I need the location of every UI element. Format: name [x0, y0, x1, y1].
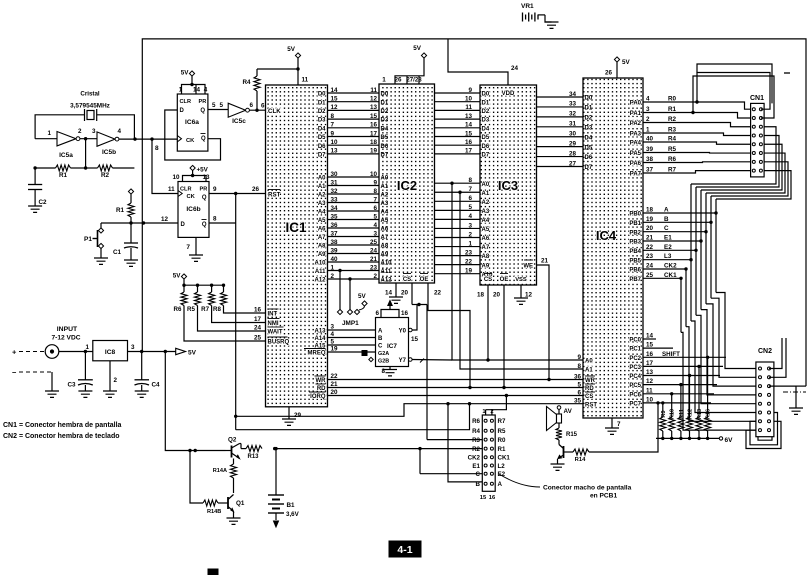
svg-text:D6: D6 [318, 144, 326, 150]
wire PB4 net E2 [629, 136, 779, 404]
svg-text:CS: CS [484, 277, 492, 283]
svg-text:4: 4 [468, 213, 472, 220]
svg-text:OE: OE [420, 277, 429, 283]
resistor R15 [556, 423, 578, 445]
pin A1 IC4 [577, 363, 593, 374]
svg-text:INT: INT [268, 312, 278, 318]
resistor R7 [201, 284, 214, 314]
svg-text:B: B [378, 336, 383, 342]
svg-text:A9: A9 [318, 252, 326, 258]
svg-text:R5: R5 [187, 306, 195, 313]
svg-text:24: 24 [254, 325, 262, 332]
svg-text:32: 32 [569, 111, 577, 118]
svg-text:D1: D1 [318, 100, 326, 106]
svg-text:A11: A11 [315, 269, 326, 275]
svg-text:R0: R0 [498, 437, 506, 444]
wire A12 [314, 273, 392, 284]
svg-text:19: 19 [370, 148, 378, 155]
wire A14 [314, 331, 375, 342]
svg-text:D0: D0 [482, 92, 490, 98]
svg-text:11: 11 [302, 77, 309, 84]
wire CN1 right pin row0 over top [697, 73, 770, 110]
inverter IC5a [35, 128, 82, 159]
svg-text:A8: A8 [318, 244, 326, 250]
wire to PCB1 row B [448, 404, 482, 482]
svg-text:5V: 5V [173, 273, 182, 280]
wire R8 to IC1 [224, 306, 266, 314]
wire PC6 [629, 387, 714, 398]
svg-text:Q2: Q2 [228, 437, 237, 444]
svg-text:Q1: Q1 [236, 500, 245, 507]
wire D3 RAM-IC4 [537, 121, 593, 132]
svg-text:PR: PR [200, 187, 208, 193]
wire A1 ROM-RAM [435, 186, 490, 197]
svg-text:R8: R8 [213, 306, 221, 313]
flip-flop IC6a [177, 87, 208, 152]
svg-text:5: 5 [212, 102, 216, 109]
wire A0 ROM-RAM [435, 177, 490, 188]
ground Q1 emitter [233, 512, 235, 519]
svg-text:A1: A1 [318, 184, 326, 190]
wire A4 ROM-RAM [435, 213, 490, 224]
svg-text:G2B: G2B [378, 359, 389, 365]
wire A2 [318, 188, 389, 199]
resistor R16 [705, 356, 712, 441]
wire 6V bus [656, 437, 733, 444]
svg-text:A2: A2 [482, 200, 490, 206]
svg-text:3,579545MHz: 3,579545MHz [70, 103, 110, 110]
svg-text:A10: A10 [314, 261, 326, 267]
svg-text:R1: R1 [116, 207, 125, 214]
resistor R14B base Q1 [188, 449, 222, 515]
svg-text:PC2: PC2 [629, 356, 641, 362]
svg-text:A1: A1 [585, 368, 593, 374]
svg-text:D7: D7 [482, 153, 490, 159]
wire CN1 right pin row1 over top [693, 76, 774, 118]
svg-text:R12: R12 [688, 409, 694, 419]
inverter IC5c [228, 102, 253, 125]
svg-text:PA4: PA4 [630, 141, 642, 147]
svg-text:D5: D5 [318, 135, 326, 141]
wire oscillator to IC6b CK pin 11 [152, 139, 178, 193]
svg-text:13: 13 [331, 148, 339, 155]
wire D0 RAM-IC4 [537, 91, 593, 102]
svg-text:1: 1 [47, 130, 51, 137]
wire IC6a D input [165, 110, 221, 160]
svg-text:16: 16 [254, 307, 262, 314]
wire PC0 [629, 333, 656, 344]
power 5V at IC6b [190, 165, 195, 170]
wire D2 [318, 104, 389, 115]
svg-text:IC5c: IC5c [232, 118, 246, 125]
svg-text:1: 1 [382, 77, 386, 84]
svg-text:IC5a: IC5a [59, 152, 73, 159]
svg-text:2: 2 [373, 273, 377, 280]
wire rail to ground near CN2 [796, 385, 806, 387]
svg-text:5V: 5V [622, 59, 631, 66]
pin OE IC2 (22) [420, 274, 472, 390]
wire D3 ROM-RAM [435, 113, 490, 124]
svg-text:RD: RD [585, 386, 594, 392]
svg-text:33: 33 [331, 196, 339, 203]
power 5V pull-up bank [173, 273, 224, 286]
svg-text:35: 35 [331, 213, 339, 220]
svg-text:18: 18 [477, 292, 485, 299]
wire D1 [318, 96, 389, 107]
svg-text:6: 6 [375, 310, 379, 317]
svg-text:5V: 5V [181, 70, 190, 77]
ground for P1 [94, 258, 108, 264]
svg-text:C4: C4 [152, 382, 161, 389]
svg-text:VR1: VR1 [521, 3, 534, 10]
power 5V output arrow [176, 348, 197, 356]
svg-text:26: 26 [252, 186, 260, 193]
pin OE IC3 (20) [493, 274, 508, 390]
wire PC5 [629, 378, 717, 389]
ground IC6b pin 7 [186, 237, 196, 255]
wire PB2 net C [629, 153, 785, 386]
svg-text:INPUT: INPUT [57, 326, 78, 333]
svg-text:11: 11 [465, 104, 472, 111]
svg-text:WE: WE [523, 264, 533, 270]
svg-text:Y7: Y7 [399, 358, 407, 364]
wire D6 RAM-IC4 [537, 150, 593, 161]
svg-text:7: 7 [468, 186, 472, 193]
svg-text:29: 29 [569, 140, 577, 147]
svg-text:31: 31 [569, 121, 577, 128]
svg-text:R2: R2 [101, 172, 110, 179]
svg-text:5V: 5V [358, 293, 367, 300]
ground for jack [45, 391, 59, 397]
svg-text:30: 30 [569, 131, 577, 138]
pin WR IC4 [574, 373, 596, 384]
svg-text:IORQ: IORQ [310, 394, 326, 400]
svg-text:5: 5 [373, 213, 377, 220]
svg-text:10: 10 [331, 139, 339, 146]
wire PC1 [629, 342, 673, 353]
wire RD bus [316, 381, 584, 392]
svg-text:2: 2 [331, 273, 335, 280]
ground IC7 pin 8 [381, 367, 390, 376]
svg-text:9: 9 [331, 130, 335, 137]
svg-text:A5: A5 [482, 227, 490, 233]
svg-text:A3: A3 [482, 209, 490, 215]
svg-text:R1: R1 [59, 172, 68, 179]
svg-text:33: 33 [569, 101, 577, 108]
ground for VR1 [545, 22, 559, 28]
pushbutton P1 [84, 223, 104, 258]
svg-text:CN1: CN1 [750, 95, 764, 102]
svg-text:19: 19 [331, 346, 339, 353]
svg-text:IC7: IC7 [387, 343, 397, 350]
resistor R2 (osc right) [86, 165, 135, 179]
wire PB7 net CK1 [629, 272, 756, 430]
terminal + [12, 348, 45, 357]
svg-text:A: A [498, 481, 503, 488]
svg-text:8: 8 [213, 216, 217, 223]
crystal X1 3,579545MHz [70, 103, 110, 122]
svg-text:23: 23 [370, 264, 378, 271]
wire PA6 net R6 [630, 156, 751, 167]
svg-text:PB0: PB0 [629, 212, 641, 218]
wire vertical x427 to PCB1 R3 [426, 305, 428, 440]
svg-text:22: 22 [331, 373, 339, 380]
wire RST route via y416 [234, 404, 583, 418]
svg-text:IC6b: IC6b [186, 206, 200, 213]
svg-text:R5: R5 [498, 428, 506, 435]
svg-text:C: C [476, 471, 481, 478]
svg-text:30: 30 [331, 171, 339, 178]
capacitor C3 [67, 350, 92, 391]
svg-text:D3: D3 [482, 118, 490, 124]
wire reset RC node [101, 222, 178, 224]
note conector macho leader [499, 474, 632, 500]
IC Z80 IC1 [266, 85, 328, 407]
svg-text:PB5: PB5 [629, 258, 641, 264]
IC PIO IC4 [583, 78, 643, 418]
wire A9 [318, 247, 389, 258]
connector CN1 [750, 95, 764, 177]
wire D3 [318, 113, 389, 124]
svg-text:CLR: CLR [180, 187, 192, 193]
wire PB6 net CK2 [629, 263, 756, 422]
svg-text:IC2: IC2 [397, 178, 417, 193]
svg-text:24: 24 [511, 65, 519, 72]
svg-text:−: − [12, 368, 17, 377]
wire PC2 [629, 351, 726, 362]
wire A10 ROM-RAM [435, 268, 494, 279]
svg-text:PC3: PC3 [629, 365, 641, 371]
svg-text:Q: Q [200, 108, 205, 114]
svg-text:IC3: IC3 [498, 178, 518, 193]
wire D4 ROM-RAM [435, 122, 490, 133]
svg-text:D3: D3 [318, 118, 326, 124]
svg-text:27/28: 27/28 [406, 77, 422, 84]
svg-text:R6: R6 [174, 306, 182, 313]
IC RAM IC3 [480, 85, 537, 285]
svg-text:CS: CS [585, 394, 593, 400]
svg-text:PB4: PB4 [629, 249, 641, 255]
svg-text:A7: A7 [318, 235, 326, 241]
battery B1 3,6V [268, 447, 300, 527]
resistor R11 [678, 383, 685, 440]
svg-text:MREQ: MREQ [308, 351, 326, 357]
svg-text:RST: RST [585, 402, 597, 408]
svg-text:1: 1 [331, 264, 335, 271]
svg-text:Conector macho de pantalla: Conector macho de pantalla [543, 485, 632, 492]
svg-text:R6: R6 [472, 418, 480, 425]
svg-text:2: 2 [490, 409, 493, 415]
svg-text:11: 11 [370, 87, 377, 94]
svg-text:D: D [180, 108, 185, 114]
connector CN2 [756, 348, 774, 437]
wire y430 segment [236, 402, 471, 430]
wire A8 [318, 239, 389, 250]
svg-text:PR: PR [199, 99, 207, 105]
svg-text:9: 9 [577, 354, 581, 361]
svg-text:17: 17 [370, 130, 378, 137]
pin CS IC2 (20) [401, 274, 412, 305]
svg-text:3: 3 [131, 344, 135, 351]
pin CS IC4 [577, 389, 595, 400]
svg-text:9: 9 [373, 179, 377, 186]
svg-text:A8: A8 [482, 254, 490, 260]
svg-text:A0: A0 [585, 359, 593, 365]
svg-text:7: 7 [186, 244, 190, 251]
wire feedback verticals [85, 139, 87, 168]
svg-text:R13: R13 [247, 454, 259, 460]
svg-text:PB6: PB6 [629, 268, 641, 274]
wire R7 to IC1 [212, 306, 266, 323]
svg-text:D4: D4 [482, 126, 490, 132]
regulator IC8 [59, 341, 135, 385]
wire PB1 net B [629, 162, 788, 377]
connector PCB1 display header [468, 409, 511, 501]
svg-text:C2: C2 [39, 199, 48, 206]
svg-text:D5: D5 [482, 135, 490, 141]
capacitor C1 [113, 223, 138, 260]
svg-text:7-12 VDC: 7-12 VDC [52, 335, 81, 342]
pin G2B diamond [362, 351, 373, 362]
wire IC8 pin2 to ground [109, 361, 111, 391]
svg-text:PA6: PA6 [630, 161, 642, 167]
svg-text:22: 22 [434, 290, 442, 297]
wire oscillator output [119, 138, 179, 140]
svg-text:Cristal: Cristal [80, 91, 100, 98]
svg-text:CK1: CK1 [498, 455, 511, 462]
wire PC4 [629, 369, 720, 380]
resistor R6 [174, 284, 187, 314]
svg-text:5: 5 [577, 381, 581, 388]
svg-text:18: 18 [370, 139, 378, 146]
wire D4 [318, 122, 389, 133]
wire D0 [318, 87, 389, 98]
flip-flop IC6b [172, 174, 210, 237]
power 5V at IC4 pin 26 [605, 57, 631, 78]
wire A7 [318, 230, 389, 241]
svg-text:CN2 = Conector hembra de tecla: CN2 = Conector hembra de teclado [3, 433, 120, 440]
ground near CN2 [769, 386, 796, 408]
svg-text:PB3: PB3 [629, 240, 641, 246]
mark dash top right [784, 72, 790, 74]
wire A6 [318, 222, 389, 233]
svg-text:IC6a: IC6a [185, 119, 199, 126]
wire IORQ bus [309, 389, 583, 400]
power 5V at IC6a [189, 71, 194, 76]
svg-text:21: 21 [370, 256, 378, 263]
svg-text:D: D [181, 222, 186, 228]
resistor R4 pullup on CLK [242, 69, 260, 110]
svg-text:6V: 6V [725, 437, 734, 444]
svg-text:13: 13 [465, 113, 473, 120]
svg-text:PA3: PA3 [630, 132, 642, 138]
svg-text:A9: A9 [482, 263, 490, 269]
svg-text:37: 37 [331, 230, 339, 237]
ground for C3 [78, 391, 92, 397]
pin CS IC3 (18) [477, 274, 492, 362]
svg-text:A0: A0 [318, 176, 326, 182]
svg-text:D1: D1 [482, 100, 490, 106]
wire crystal loop top [35, 115, 84, 139]
svg-text:R14A: R14A [213, 468, 227, 474]
svg-text:15: 15 [331, 96, 339, 103]
svg-text:A4: A4 [482, 218, 490, 224]
svg-text:IC4: IC4 [596, 228, 617, 243]
power 5V at JMP1 [358, 293, 367, 306]
wire A5 [318, 213, 389, 224]
svg-text:10: 10 [465, 96, 473, 103]
svg-text:5: 5 [468, 204, 472, 211]
svg-text:PA2: PA2 [630, 121, 642, 127]
wire D0 ROM-RAM [435, 87, 490, 98]
resistor R1 (osc left) [35, 165, 86, 179]
pin NMI IC1 [268, 319, 280, 328]
svg-text:Q: Q [202, 195, 207, 201]
svg-text:3: 3 [92, 128, 96, 135]
svg-text:A6: A6 [318, 227, 326, 233]
svg-text:7: 7 [373, 196, 377, 203]
wire IC3 VDD pin 24 [448, 39, 519, 85]
svg-text:4: 4 [373, 222, 377, 229]
wire IC2 top bracket to 5V [382, 58, 424, 84]
svg-text:21: 21 [331, 381, 339, 388]
wire A2 ROM-RAM [435, 195, 490, 206]
svg-text:31: 31 [331, 179, 339, 186]
wire to PCB1 row R3 [427, 439, 482, 441]
svg-text:Y0: Y0 [399, 329, 407, 335]
svg-text:3,6V: 3,6V [286, 511, 300, 518]
svg-text:WAIT: WAIT [268, 330, 283, 336]
wire A1 [318, 179, 389, 190]
pin A0 IC4 [577, 354, 593, 365]
wire A3 [318, 196, 389, 207]
svg-text:1: 1 [179, 87, 183, 94]
svg-text:15: 15 [411, 336, 419, 343]
wire CN2 bottom nested rects [746, 421, 781, 448]
svg-text:R2: R2 [472, 446, 480, 453]
svg-text:R14B: R14B [207, 509, 221, 515]
svg-text:34: 34 [331, 205, 339, 212]
mark bottom left [208, 569, 218, 575]
svg-text:A0: A0 [482, 182, 490, 188]
svg-text:26: 26 [394, 77, 402, 84]
ground for IC8 [103, 391, 117, 397]
svg-text:R7: R7 [498, 418, 506, 425]
svg-text:9: 9 [213, 186, 217, 193]
svg-text:CLK: CLK [268, 108, 281, 115]
svg-text:8: 8 [331, 113, 335, 120]
svg-text:14: 14 [385, 290, 393, 297]
wire WR bus [315, 373, 584, 384]
svg-text:en PCB1: en PCB1 [590, 493, 617, 500]
svg-text:VDD: VDD [502, 91, 515, 97]
svg-text:5V: 5V [287, 46, 296, 53]
svg-text:AV: AV [564, 408, 573, 415]
wire IC6b preset bracket to 5V [183, 176, 207, 182]
wire D4 RAM-IC4 [537, 131, 593, 142]
svg-text:38: 38 [331, 239, 339, 246]
wire PB0 net A [629, 171, 791, 369]
pin INT IC1 [268, 309, 279, 318]
svg-text:17: 17 [254, 316, 262, 323]
wire PA5 net R5 [630, 146, 751, 157]
svg-text:CK2: CK2 [468, 455, 481, 462]
wire IC8 output [128, 351, 176, 353]
wire PA7 net R7 [630, 167, 751, 178]
ground for C1 [124, 260, 138, 266]
svg-text:8: 8 [577, 363, 581, 370]
svg-text:14: 14 [465, 122, 473, 129]
